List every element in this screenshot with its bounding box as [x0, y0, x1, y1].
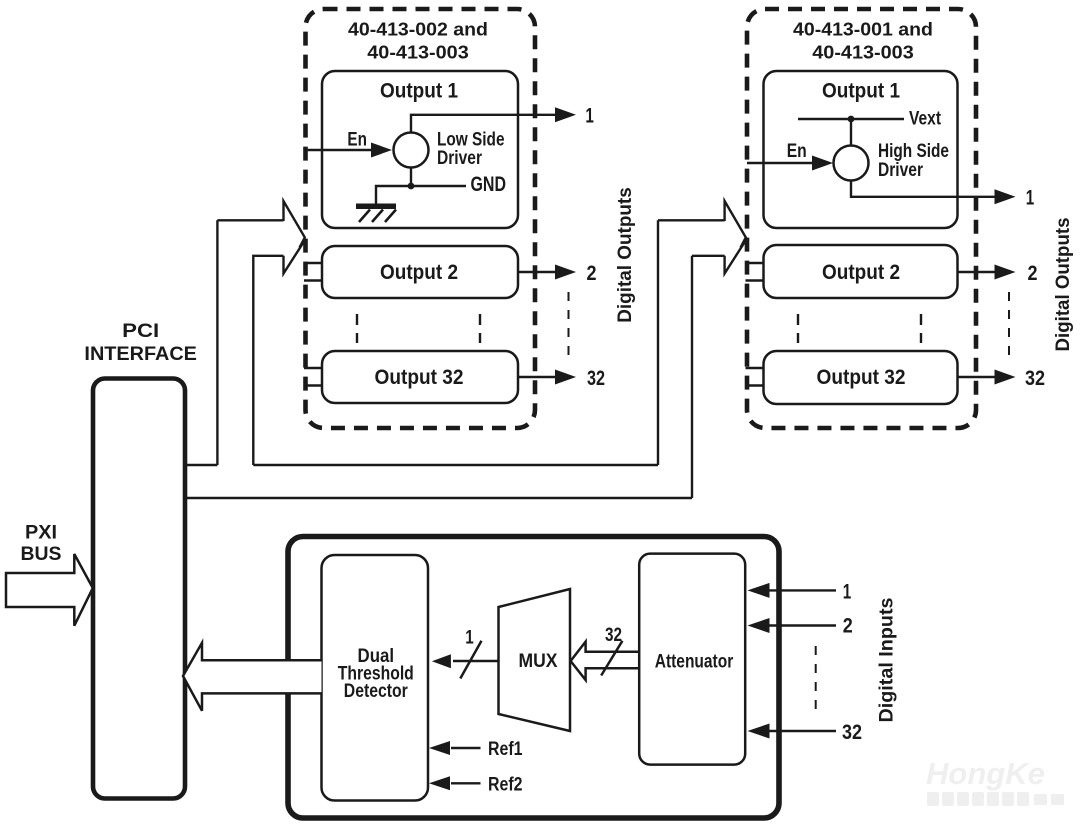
input tick wires Output 2 (left): [304, 263, 322, 281]
input tick wires Output 32 (right): [746, 368, 764, 386]
hollow bus arrow attenuator to MUX: [571, 642, 640, 680]
arrowhead input 32: [748, 724, 770, 739]
svg-text:MUX: MUX: [519, 651, 558, 672]
wire output 1 (left): [411, 115, 557, 133]
svg-text:40-413-003: 40-413-003: [367, 42, 469, 63]
wire output 2 (left): [518, 271, 557, 273]
block Output 2 (left): [322, 246, 518, 298]
svg-text:32: 32: [605, 625, 622, 646]
svg-text:Detector: Detector: [344, 681, 409, 702]
wire PCI to right arrow 2: [185, 256, 725, 498]
bus width slash 32: [601, 641, 622, 676]
block attenuator: [639, 554, 745, 765]
bus block arrow detector to PCI: [183, 643, 322, 711]
svg-text:Driver: Driver: [437, 148, 482, 169]
svg-text:BUS: BUS: [21, 544, 62, 565]
wire MUX to detector: [453, 660, 499, 662]
continuation dashes right of outputs (left): [568, 292, 570, 361]
svg-text:Output 2: Output 2: [822, 260, 900, 284]
svg-text:1: 1: [465, 628, 474, 649]
wire PCI to left arrow 1: [185, 220, 284, 465]
svg-text:2: 2: [1028, 261, 1038, 285]
block Output 1 (low side, left): [322, 71, 518, 228]
wire output 1 (right): [851, 181, 996, 197]
continuation dashes between Output 2 and 32 (left): [357, 314, 480, 343]
svg-text:Ref1: Ref1: [488, 739, 523, 760]
svg-text:Digital Outputs: Digital Outputs: [1053, 218, 1074, 352]
arrowhead En (left): [371, 143, 392, 158]
arrowhead output 2 (right): [995, 265, 1016, 280]
svg-text:Output 32: Output 32: [375, 365, 464, 389]
arrowhead output 32 (right): [995, 370, 1016, 385]
wire GND label lead: [411, 185, 466, 187]
svg-text:40-413-003: 40-413-003: [812, 42, 914, 63]
wire En (left): [306, 149, 372, 151]
wire output 32 (right): [958, 376, 997, 378]
svg-text:PCI: PCI: [122, 321, 159, 342]
wire to ground symbol: [376, 186, 411, 204]
svg-text:Ref2: Ref2: [488, 775, 523, 796]
junction dot Vext node: [848, 116, 855, 123]
block Output 1 (high side, right): [764, 71, 958, 228]
svg-text:En: En: [347, 130, 367, 151]
svg-text:High Side: High Side: [878, 141, 949, 162]
wire left arrow 2 feed: [253, 256, 283, 465]
wire digital input 32: [768, 730, 836, 732]
bus arrow 1 (right, upper): [725, 201, 746, 248]
svg-text:En: En: [787, 141, 807, 162]
wire Vext stem: [850, 119, 852, 146]
wire output 32 (left): [518, 376, 557, 378]
svg-text:INTERFACE: INTERFACE: [84, 344, 197, 365]
svg-text:HongKe: HongKe: [926, 756, 1045, 791]
svg-text:1: 1: [1026, 186, 1035, 210]
junction dot GND node: [408, 183, 415, 190]
MUX block: [499, 589, 571, 731]
block Output 2 (right): [764, 245, 958, 298]
arrowhead Ref1: [429, 741, 450, 755]
continuation dashes right of outputs (right): [1008, 292, 1010, 361]
svg-text:32: 32: [587, 366, 605, 390]
bus arrow 1 (left, upper): [284, 201, 305, 248]
bus width slash 1: [460, 641, 481, 679]
PXI bus block arrow: [6, 554, 93, 626]
svg-text:Driver: Driver: [878, 160, 923, 181]
svg-text:2: 2: [843, 614, 853, 638]
svg-text:Vext: Vext: [909, 109, 942, 130]
input tick wires Output 2 (right): [746, 263, 764, 281]
arrowhead output 32 (left): [555, 370, 576, 385]
wire output 2 (right): [958, 271, 997, 273]
arrowhead Ref2: [429, 776, 450, 790]
arrowhead input 2: [748, 618, 770, 633]
svg-text:Digital Outputs: Digital Outputs: [615, 187, 636, 323]
wire digital input 2: [768, 624, 836, 626]
svg-text:PXI: PXI: [25, 523, 57, 544]
block Output 32 (left): [322, 351, 518, 403]
wire En (right): [747, 162, 813, 164]
continuation dashes inputs: [815, 646, 817, 713]
arrowhead output 1 (left): [555, 107, 576, 122]
low side driver circle U1: [394, 133, 429, 168]
svg-text:40-413-002 and: 40-413-002 and: [348, 19, 488, 40]
dashed group box 40-413-001/003 (right): [747, 9, 976, 428]
arrowhead output 2 (left): [555, 265, 576, 280]
svg-text:32: 32: [842, 720, 862, 744]
svg-text:Digital Inputs: Digital Inputs: [877, 598, 898, 723]
svg-text:40-413-001 and: 40-413-001 and: [793, 19, 933, 40]
arrowhead MUX to detector: [432, 654, 451, 668]
digital inputs enclosure (thick box): [288, 537, 779, 819]
bus arrow 2 (right, lower): [725, 241, 746, 274]
wire Vext: [798, 118, 904, 120]
block dual threshold detector: [322, 555, 429, 801]
svg-text:32: 32: [1025, 366, 1045, 390]
arrowhead En (right): [812, 156, 833, 171]
wire digital input 1: [768, 589, 836, 591]
svg-text:GND: GND: [471, 172, 507, 196]
svg-text:1: 1: [843, 580, 852, 604]
wire Ref1: [451, 747, 481, 749]
wire Ref2: [451, 782, 481, 784]
wire mid bus segment y=465: [253, 220, 724, 465]
high side driver circle U2: [834, 146, 869, 181]
svg-text:Output 32: Output 32: [817, 365, 906, 389]
svg-text:Attenuator: Attenuator: [655, 652, 734, 673]
svg-text:Output 1: Output 1: [380, 79, 458, 103]
svg-text:Output 1: Output 1: [822, 79, 900, 103]
dashed group box 40-413-002/003 (left): [306, 9, 536, 428]
svg-text:1: 1: [585, 104, 594, 128]
wire GND stem: [410, 168, 412, 187]
watermark HongKe: [926, 756, 1064, 806]
bus arrow 2 (left, lower): [284, 241, 305, 274]
input tick wires Output 32 (left): [304, 368, 322, 386]
svg-text:Output 2: Output 2: [380, 260, 458, 284]
block Output 32 (right): [764, 351, 958, 404]
block PCI interface: [93, 379, 185, 799]
arrowhead input 1: [748, 583, 770, 598]
continuation dashes between Output 2 and 32 (right): [798, 314, 921, 343]
arrowhead output 1 (right): [995, 189, 1016, 204]
svg-text:2: 2: [587, 261, 597, 285]
ground: [356, 204, 396, 223]
